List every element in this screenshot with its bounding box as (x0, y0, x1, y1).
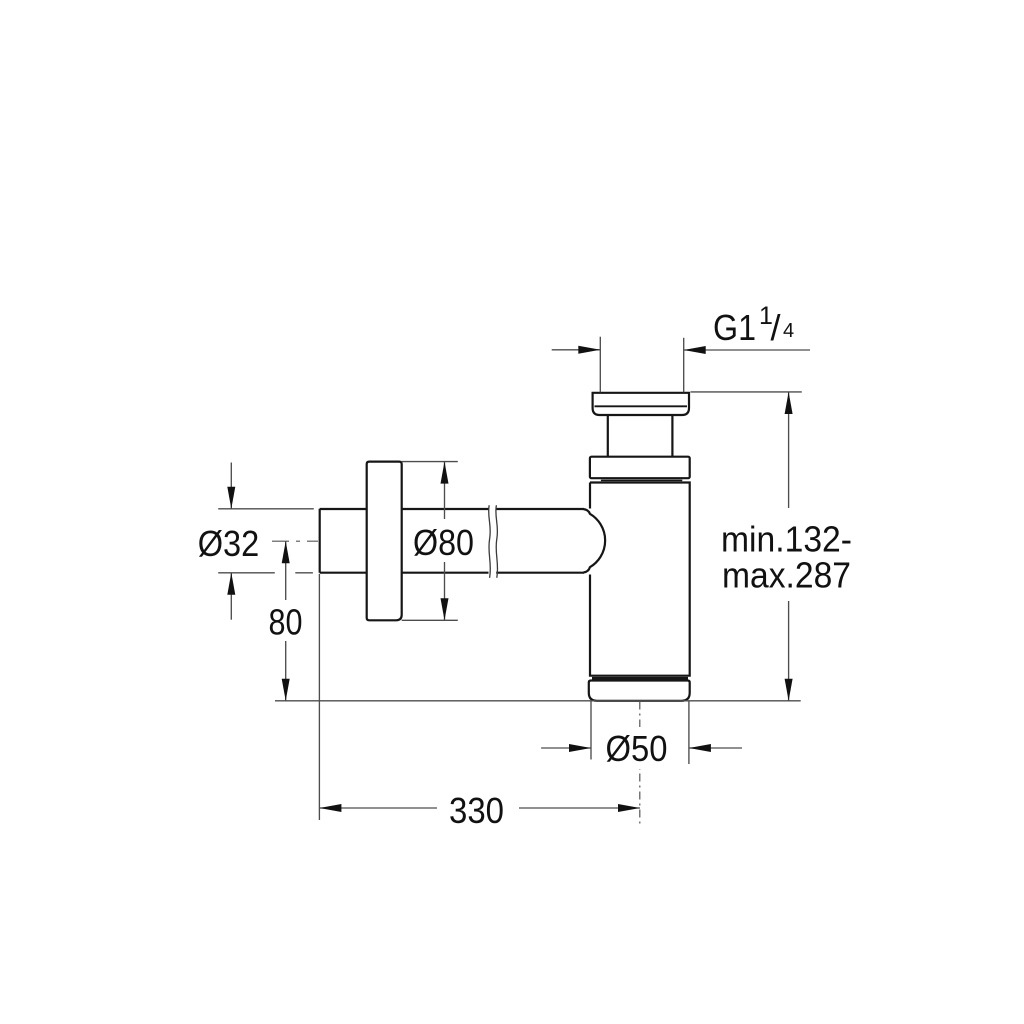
body centerline (639, 702, 641, 824)
bottom datum line (275, 700, 801, 702)
dim 330 dimension line (319, 807, 640, 809)
dim 80 vertical dimension line (285, 541, 287, 701)
pipe break squiggle (489, 505, 498, 578)
dia50 right arrowhead (689, 744, 711, 752)
neck tube (608, 415, 673, 457)
wall flange rosette (367, 462, 402, 621)
diameter 32 lower leader (230, 573, 232, 620)
dia80 bottom arrowhead (441, 598, 449, 620)
svg-text:Ø32: Ø32 (198, 523, 260, 564)
diameter 50 right arrow tail (689, 747, 742, 749)
dimension thin lines (218, 337, 810, 820)
G1 right arrowhead (684, 346, 706, 354)
diameter 80 dimension line (444, 462, 446, 621)
min-max top extension line (691, 391, 802, 393)
inlet pipe outline (320, 509, 584, 573)
G1 1/4 right arrow tail (684, 349, 810, 351)
min-max vertical dimension line (788, 392, 790, 701)
diameter 32 bottom extension line (218, 572, 313, 574)
diameter 80 top extension line (402, 461, 458, 463)
svg-text:/: / (771, 307, 781, 348)
diameter 32 top extension line (218, 508, 314, 510)
G1 1/4 left extension line (599, 337, 601, 393)
svg-text:4: 4 (783, 320, 794, 342)
svg-text:max.287: max.287 (722, 555, 851, 596)
dia32 down arrowhead (227, 487, 235, 509)
G1 left arrowhead (578, 346, 600, 354)
dia50 left arrowhead (569, 744, 591, 752)
diameter 50 right extension line (688, 701, 690, 764)
trap body junction arc (584, 509, 606, 572)
collar nut (590, 457, 690, 479)
G1 1/4 left arrow tail (552, 349, 601, 351)
dim330 left arrowhead (319, 804, 341, 812)
trap top nut cap (593, 393, 689, 415)
dim80 down arrowhead (282, 679, 290, 701)
diameter 80 bottom extension line (402, 619, 458, 621)
diameter 32 upper leader (230, 463, 232, 509)
top nut inner line (595, 405, 688, 407)
G1 1/4 right extension line (683, 338, 685, 393)
diameter 50 left extension line (590, 701, 592, 760)
diameter 50 left arrow tail (541, 747, 591, 749)
min-max bottom arrowhead (785, 679, 793, 701)
svg-text:Ø50: Ø50 (606, 728, 668, 769)
dia80 top arrowhead (441, 462, 449, 484)
dim80 up arrowhead (282, 541, 290, 563)
dim330 right arrowhead (618, 804, 640, 812)
dim 330 left extension line (318, 574, 320, 820)
bottom joint thick line (592, 677, 688, 680)
svg-text:80: 80 (269, 602, 303, 643)
pipe centerline (272, 540, 318, 542)
arrowheads (227, 346, 792, 812)
text background masks (266, 508, 855, 826)
svg-text:Ø80: Ø80 (413, 522, 474, 563)
svg-text:330: 330 (449, 790, 504, 831)
trap body cylinder (590, 483, 690, 676)
svg-text:G1: G1 (713, 307, 756, 348)
label G1 1/4 (713, 302, 794, 348)
svg-text:min.132-: min.132- (721, 519, 852, 560)
top joint line (601, 479, 682, 481)
bottom cap (589, 681, 690, 701)
min-max top arrowhead (785, 392, 793, 414)
dia32 up arrowhead (227, 573, 235, 595)
